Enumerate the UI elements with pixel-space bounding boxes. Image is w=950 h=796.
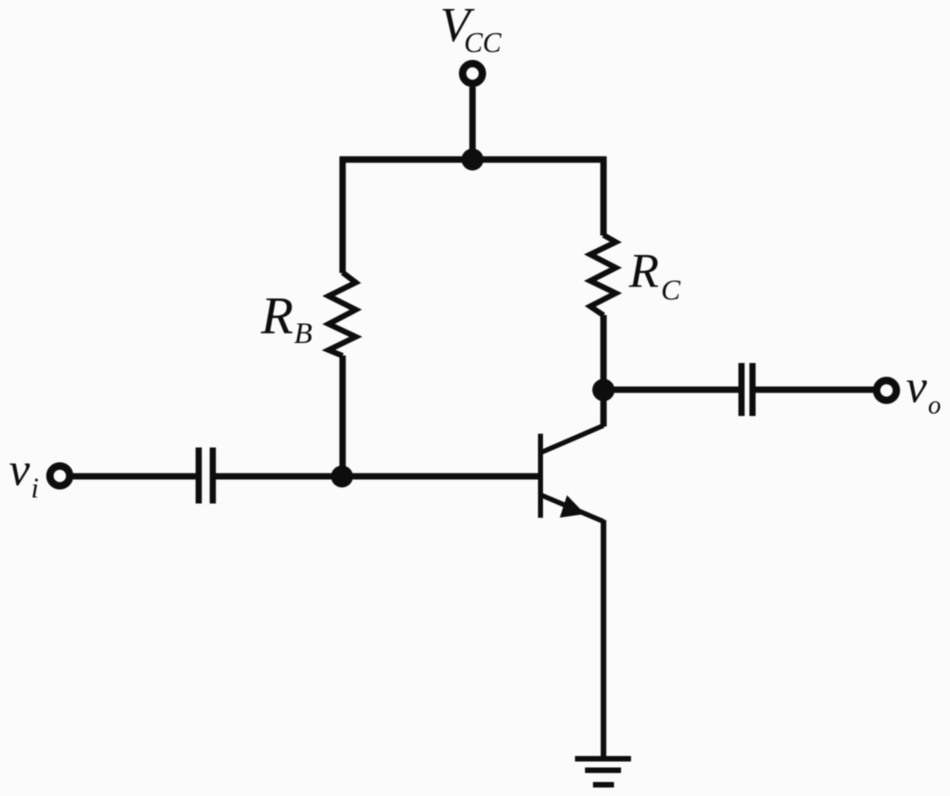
capacitor C1 [199, 448, 213, 504]
svg-text:i: i [31, 474, 39, 505]
label Vcc [440, 0, 502, 59]
svg-text:C: C [661, 274, 681, 306]
junction dot collector node [592, 379, 614, 401]
svg-text:R: R [260, 287, 293, 345]
wire top rail [340, 156, 607, 162]
svg-text:o: o [928, 390, 941, 419]
label vi [9, 444, 39, 505]
junction dot base node [331, 466, 353, 488]
wire RB bottom [339, 356, 345, 477]
wire C2 to vo [753, 387, 875, 393]
wire RB top [339, 157, 345, 274]
ground [575, 759, 631, 785]
resistor RB [329, 273, 356, 356]
label RC [628, 243, 681, 306]
junction dot top node [462, 149, 484, 171]
wire RC top [600, 157, 606, 236]
svg-text:CC: CC [464, 28, 502, 59]
wire emitter down [601, 520, 607, 759]
capacitor C2 [742, 363, 753, 416]
terminal vo [877, 381, 897, 401]
svg-text:v: v [906, 361, 927, 413]
label RB [260, 287, 312, 350]
svg-text:B: B [294, 317, 312, 350]
terminal vi [50, 466, 70, 486]
svg-text:R: R [628, 243, 659, 298]
wire collector to C2 [604, 387, 742, 393]
terminal Vcc [463, 64, 483, 84]
wire C1 to base [213, 473, 541, 479]
transistor Q1 [541, 426, 604, 522]
wire collector vertical [600, 315, 606, 427]
svg-text:v: v [9, 444, 30, 496]
wire vi to C1 [73, 473, 199, 479]
label vo [906, 361, 941, 419]
wire Vcc stub [469, 87, 475, 160]
resistor RC [590, 235, 616, 315]
